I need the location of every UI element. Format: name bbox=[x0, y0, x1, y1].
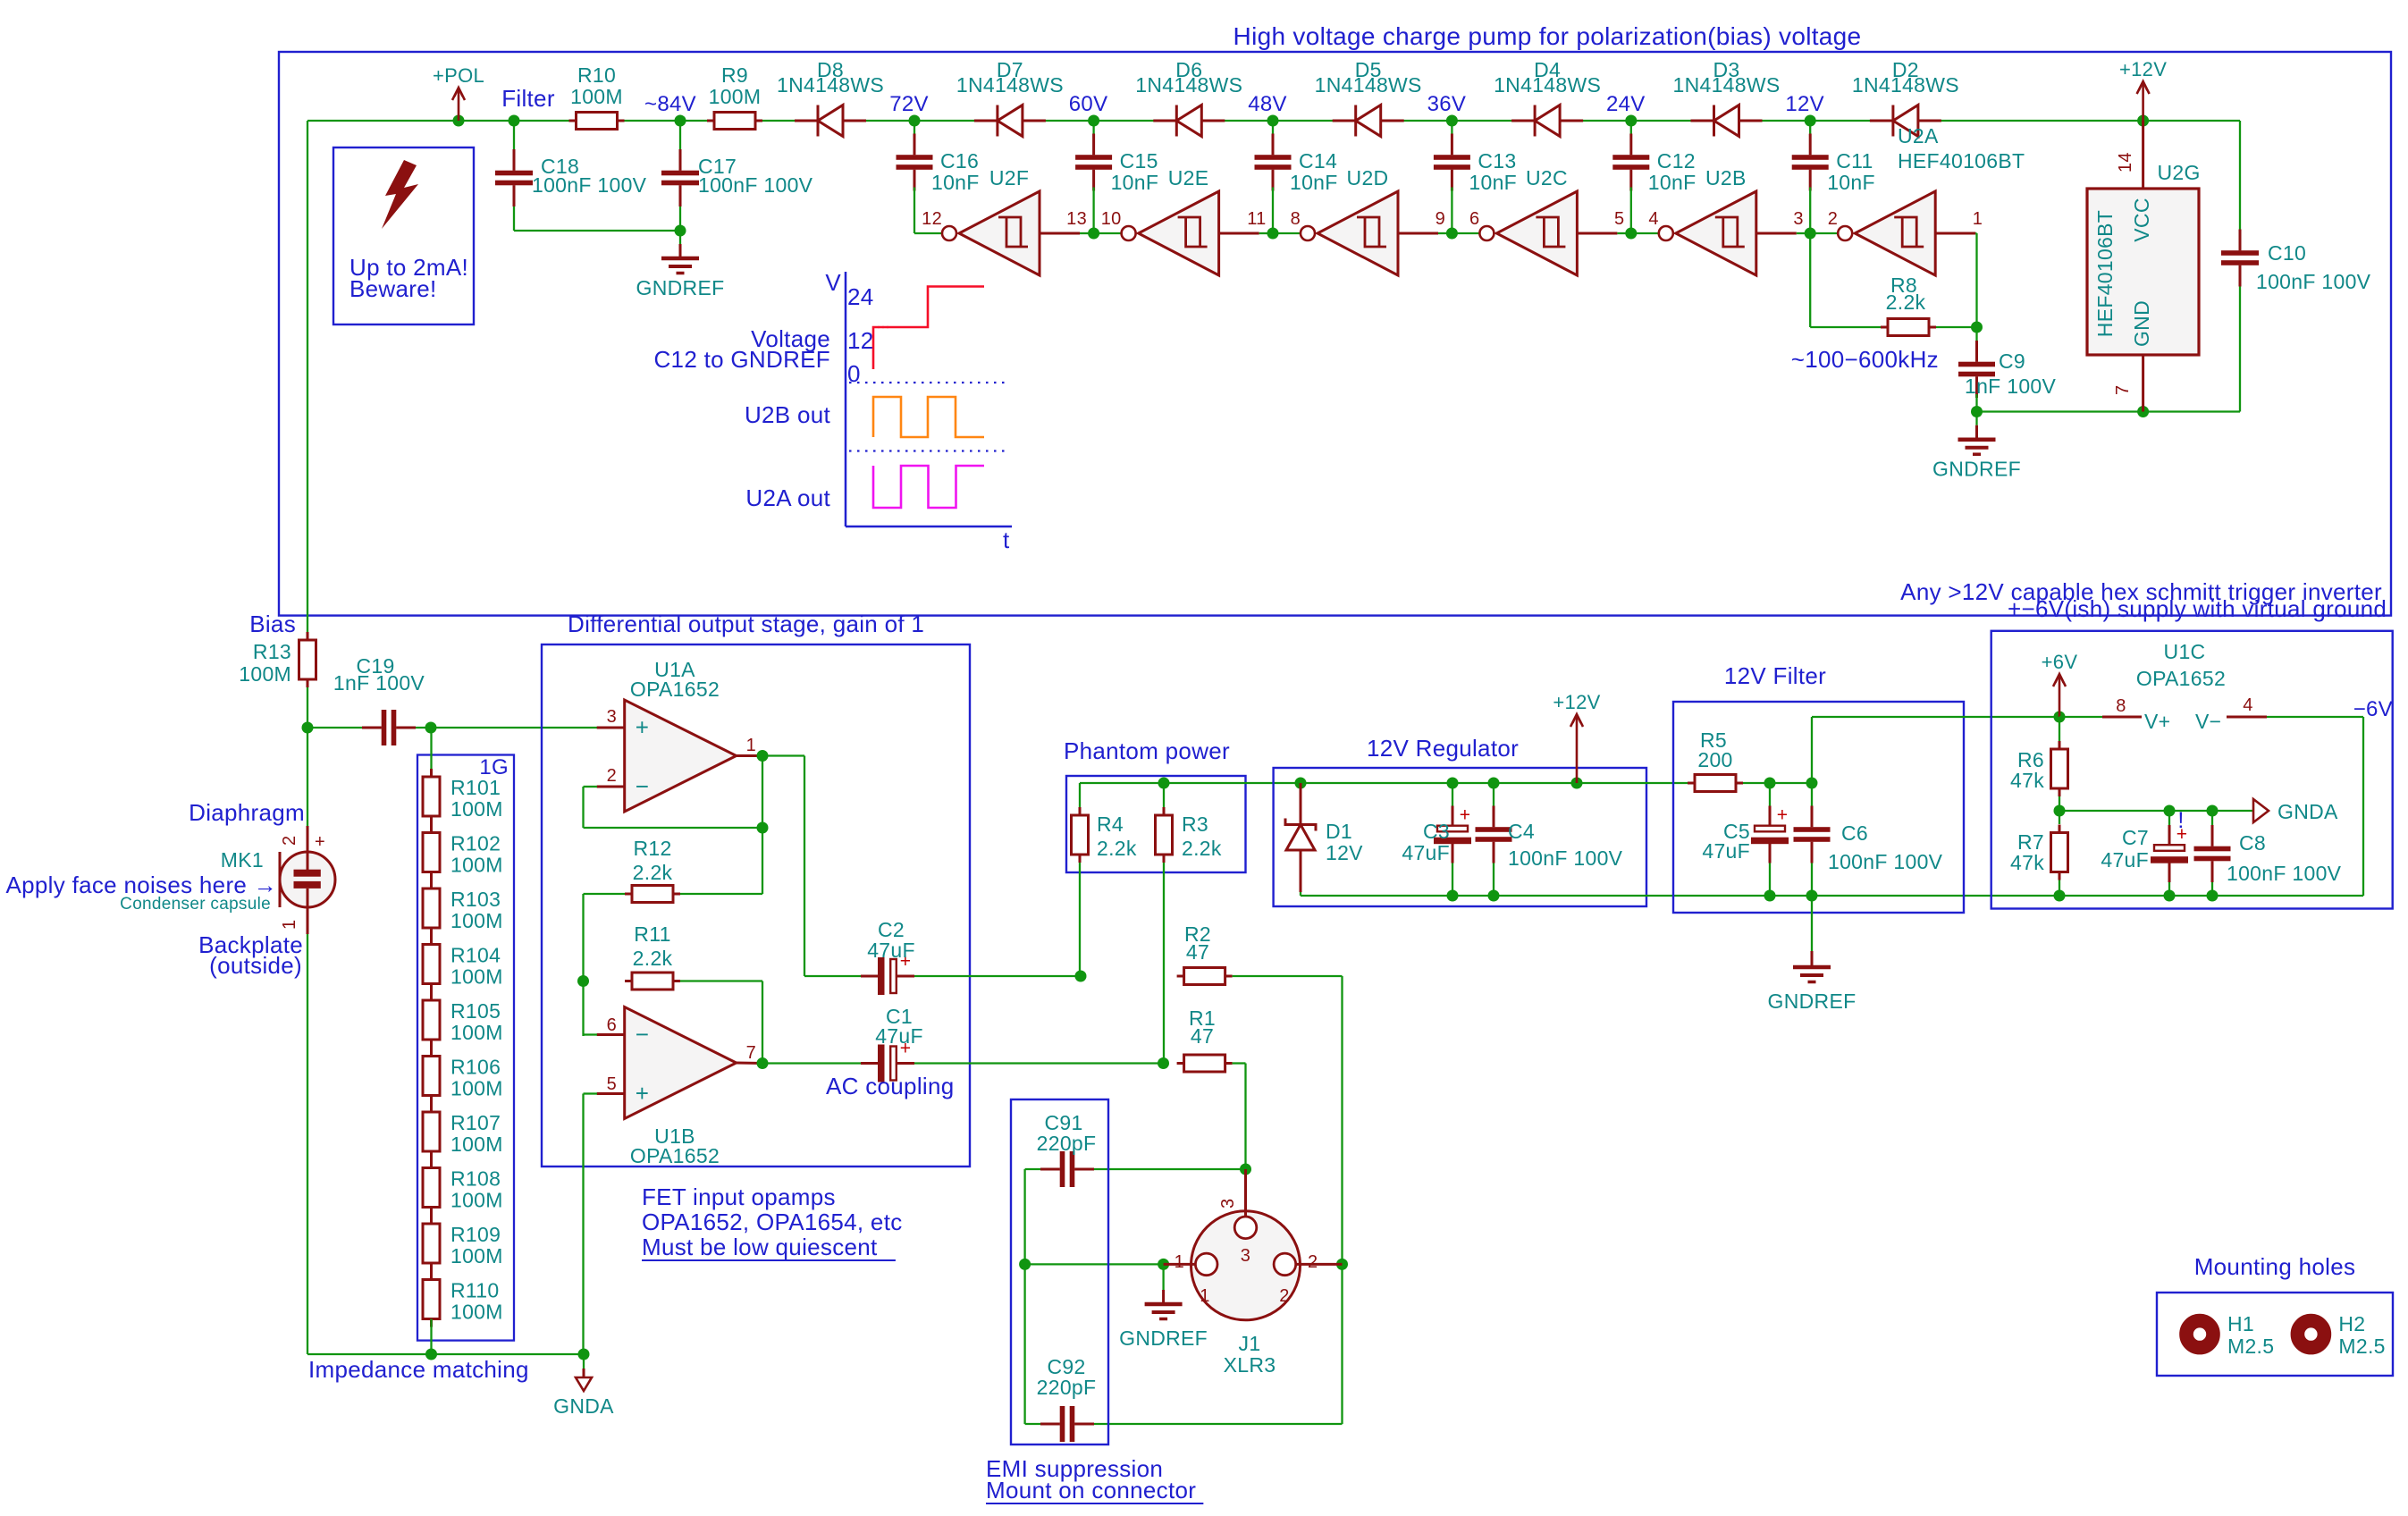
svg-text:+: + bbox=[315, 832, 325, 852]
svg-text:6: 6 bbox=[607, 1015, 617, 1035]
svg-text:47uF: 47uF bbox=[867, 939, 915, 962]
svg-text:36V: 36V bbox=[1427, 92, 1467, 116]
svg-text:100M: 100M bbox=[450, 854, 503, 877]
svg-text:4: 4 bbox=[1648, 209, 1658, 229]
svg-text:11: 11 bbox=[1247, 209, 1266, 229]
svg-text:H2: H2 bbox=[2338, 1312, 2365, 1335]
svg-text:C13: C13 bbox=[1478, 149, 1516, 173]
svg-text:2: 2 bbox=[280, 836, 299, 846]
svg-text:10nF: 10nF bbox=[1111, 171, 1159, 194]
svg-text:10nF: 10nF bbox=[1469, 171, 1517, 194]
svg-text:D1: D1 bbox=[1326, 820, 1352, 843]
svg-text:1nF 100V: 1nF 100V bbox=[333, 671, 425, 695]
svg-text:2: 2 bbox=[607, 766, 617, 786]
svg-text:U2C: U2C bbox=[1526, 166, 1568, 189]
svg-text:R104: R104 bbox=[450, 944, 501, 967]
svg-text:10nF: 10nF bbox=[931, 171, 980, 194]
svg-text:3: 3 bbox=[1793, 209, 1803, 229]
svg-text:J1: J1 bbox=[1239, 1332, 1261, 1355]
svg-text:100M: 100M bbox=[709, 85, 762, 108]
svg-text:+−6V(ish) supply with virtual: +−6V(ish) supply with virtual ground bbox=[2008, 595, 2387, 622]
svg-text:7: 7 bbox=[746, 1043, 756, 1063]
svg-text:100nF 100V: 100nF 100V bbox=[2256, 270, 2371, 293]
svg-text:1: 1 bbox=[1175, 1252, 1184, 1272]
svg-text:+12V: +12V bbox=[1553, 691, 1600, 713]
svg-text:U2A: U2A bbox=[1898, 124, 1939, 147]
svg-text:Mount on connector: Mount on connector bbox=[986, 1477, 1196, 1503]
svg-text:10nF: 10nF bbox=[1290, 171, 1338, 194]
svg-text:OPA1652, OPA1654, etc: OPA1652, OPA1654, etc bbox=[642, 1209, 903, 1235]
svg-text:2: 2 bbox=[1308, 1252, 1318, 1272]
svg-text:GNDREF: GNDREF bbox=[1119, 1326, 1208, 1350]
svg-text:+: + bbox=[636, 1080, 649, 1107]
svg-text:47: 47 bbox=[1191, 1024, 1214, 1048]
svg-text:R110: R110 bbox=[450, 1279, 499, 1302]
svg-text:3: 3 bbox=[1218, 1199, 1238, 1209]
svg-text:R11: R11 bbox=[634, 922, 670, 946]
svg-text:C7: C7 bbox=[2122, 826, 2149, 849]
svg-text:2.2k: 2.2k bbox=[1182, 837, 1222, 860]
svg-text:8: 8 bbox=[1291, 209, 1301, 229]
svg-text:U2G: U2G bbox=[2158, 161, 2201, 184]
svg-text:60V: 60V bbox=[1069, 92, 1108, 116]
svg-text:24: 24 bbox=[847, 283, 874, 310]
svg-text:R105: R105 bbox=[450, 999, 501, 1023]
svg-text:7: 7 bbox=[2113, 385, 2133, 395]
svg-text:R109: R109 bbox=[450, 1223, 501, 1246]
svg-text:−: − bbox=[636, 773, 649, 800]
svg-text:220pF: 220pF bbox=[1037, 1376, 1097, 1399]
svg-text:C8: C8 bbox=[2239, 831, 2266, 855]
svg-text:C15: C15 bbox=[1120, 149, 1158, 173]
svg-text:HEF40106BT: HEF40106BT bbox=[2093, 210, 2117, 337]
svg-text:~84V: ~84V bbox=[644, 92, 696, 116]
svg-text:1N4148WS: 1N4148WS bbox=[1315, 73, 1422, 97]
svg-text:R4: R4 bbox=[1097, 813, 1124, 836]
svg-text:100nF 100V: 100nF 100V bbox=[2227, 862, 2342, 885]
svg-text:47uF: 47uF bbox=[1702, 839, 1750, 863]
svg-text:100M: 100M bbox=[450, 1189, 503, 1212]
svg-text:R106: R106 bbox=[450, 1056, 501, 1079]
svg-text:U2B: U2B bbox=[1705, 166, 1747, 189]
svg-text:Filter: Filter bbox=[501, 85, 555, 112]
svg-text:−6V: −6V bbox=[2353, 697, 2393, 721]
svg-text:12V: 12V bbox=[1326, 841, 1363, 864]
svg-text:1N4148WS: 1N4148WS bbox=[956, 73, 1064, 97]
svg-text:+6V: +6V bbox=[2042, 651, 2078, 673]
svg-text:100M: 100M bbox=[450, 909, 503, 932]
svg-text:−: − bbox=[636, 1021, 649, 1048]
svg-text:2: 2 bbox=[1828, 209, 1838, 229]
svg-text:6: 6 bbox=[1469, 209, 1479, 229]
svg-text:10: 10 bbox=[1101, 209, 1122, 229]
svg-text:Differential output stage, gai: Differential output stage, gain of 1 bbox=[568, 611, 924, 637]
svg-text:U2F: U2F bbox=[989, 166, 1029, 189]
svg-text:200: 200 bbox=[1697, 748, 1732, 771]
svg-text:Diaphragm: Diaphragm bbox=[189, 799, 305, 826]
svg-text:48V: 48V bbox=[1248, 92, 1287, 116]
svg-text:+: + bbox=[636, 714, 649, 741]
svg-text:Bias: Bias bbox=[249, 611, 296, 637]
svg-text:47k: 47k bbox=[2010, 769, 2044, 792]
svg-text:2.2k: 2.2k bbox=[633, 861, 673, 884]
svg-text:R102: R102 bbox=[450, 832, 501, 855]
svg-text:100M: 100M bbox=[450, 965, 503, 989]
svg-text:U2E: U2E bbox=[1168, 166, 1209, 189]
svg-text:!: ! bbox=[2177, 808, 2184, 833]
svg-text:t: t bbox=[1003, 526, 1010, 553]
svg-text:GNDREF: GNDREF bbox=[636, 276, 725, 299]
svg-text:100M: 100M bbox=[570, 85, 623, 108]
svg-text:1: 1 bbox=[1200, 1286, 1209, 1306]
svg-text:9: 9 bbox=[1436, 209, 1445, 229]
svg-text:1N4148WS: 1N4148WS bbox=[777, 73, 884, 97]
svg-text:C10: C10 bbox=[2268, 241, 2306, 265]
svg-text:14: 14 bbox=[2116, 152, 2135, 173]
svg-text:1N4148WS: 1N4148WS bbox=[1135, 73, 1242, 97]
svg-text:AC coupling: AC coupling bbox=[826, 1073, 955, 1099]
svg-text:GNDA: GNDA bbox=[553, 1394, 614, 1418]
svg-text:C6: C6 bbox=[1841, 821, 1868, 845]
svg-text:OPA1652: OPA1652 bbox=[630, 678, 720, 701]
svg-text:GNDA: GNDA bbox=[2277, 800, 2338, 823]
svg-text:C9: C9 bbox=[1999, 350, 2025, 373]
svg-text:R107: R107 bbox=[450, 1111, 501, 1134]
svg-text:2.2k: 2.2k bbox=[1097, 837, 1137, 860]
svg-text:12V Regulator: 12V Regulator bbox=[1367, 735, 1519, 762]
svg-text:100nF 100V: 100nF 100V bbox=[532, 173, 647, 197]
svg-text:C12: C12 bbox=[1657, 149, 1696, 173]
svg-text:2: 2 bbox=[1279, 1286, 1289, 1306]
svg-text:Condenser capsule: Condenser capsule bbox=[120, 895, 271, 914]
svg-text:100M: 100M bbox=[450, 797, 503, 821]
svg-text:+POL: +POL bbox=[433, 64, 484, 87]
svg-text:HEF40106BT: HEF40106BT bbox=[1898, 149, 2025, 173]
svg-text:5: 5 bbox=[1614, 209, 1624, 229]
svg-text:100M: 100M bbox=[239, 662, 291, 686]
svg-text:OPA1652: OPA1652 bbox=[2136, 667, 2226, 690]
svg-text:1: 1 bbox=[1973, 209, 1983, 229]
svg-text:47uF: 47uF bbox=[1402, 841, 1450, 864]
svg-text:C16: C16 bbox=[940, 149, 979, 173]
svg-text:High voltage charge pump for p: High voltage charge pump for polarizatio… bbox=[1233, 22, 1862, 50]
svg-text:47: 47 bbox=[1186, 940, 1209, 964]
svg-text:24V: 24V bbox=[1606, 92, 1646, 116]
svg-text:C4: C4 bbox=[1508, 820, 1535, 843]
svg-text:100M: 100M bbox=[450, 1077, 503, 1100]
svg-text:U2B out: U2B out bbox=[745, 401, 831, 428]
svg-text:+: + bbox=[1777, 805, 1789, 826]
svg-text:100M: 100M bbox=[450, 1301, 503, 1324]
svg-text:GND: GND bbox=[2130, 300, 2153, 347]
svg-text:100M: 100M bbox=[450, 1244, 503, 1268]
svg-text:10nF: 10nF bbox=[1648, 171, 1697, 194]
svg-text:Mounting holes: Mounting holes bbox=[2194, 1253, 2356, 1280]
svg-text:220pF: 220pF bbox=[1037, 1132, 1097, 1155]
svg-text:1: 1 bbox=[746, 736, 756, 755]
svg-text:Impedance matching: Impedance matching bbox=[308, 1356, 529, 1383]
svg-text:47uF: 47uF bbox=[875, 1024, 923, 1048]
svg-text:12: 12 bbox=[847, 327, 874, 354]
svg-text:C11: C11 bbox=[1836, 149, 1873, 173]
svg-text:3: 3 bbox=[607, 707, 617, 727]
svg-text:100nF 100V: 100nF 100V bbox=[698, 173, 813, 197]
svg-text:1: 1 bbox=[280, 920, 299, 930]
svg-text:47k: 47k bbox=[2010, 851, 2044, 874]
svg-text:Beware!: Beware! bbox=[349, 275, 436, 302]
svg-text:(outside): (outside) bbox=[209, 952, 302, 979]
svg-text:12: 12 bbox=[922, 209, 942, 229]
svg-text:C3: C3 bbox=[1423, 820, 1450, 843]
svg-text:U1C: U1C bbox=[2164, 640, 2206, 663]
svg-text:H1: H1 bbox=[2227, 1312, 2254, 1335]
svg-text:1N4148WS: 1N4148WS bbox=[1852, 73, 1959, 97]
svg-text:4: 4 bbox=[2243, 695, 2252, 715]
svg-text:M2.5: M2.5 bbox=[2338, 1335, 2385, 1358]
svg-text:1N4148WS: 1N4148WS bbox=[1672, 73, 1780, 97]
svg-text:~100−600kHz: ~100−600kHz bbox=[1791, 346, 1939, 373]
svg-text:12V: 12V bbox=[1785, 92, 1824, 116]
svg-text:V−: V− bbox=[2195, 710, 2221, 733]
svg-text:100nF 100V: 100nF 100V bbox=[1508, 846, 1623, 870]
svg-text:72V: 72V bbox=[889, 92, 929, 116]
svg-text:GNDREF: GNDREF bbox=[1932, 458, 2021, 481]
svg-text:100M: 100M bbox=[450, 1133, 503, 1156]
svg-text:C12 to GNDREF: C12 to GNDREF bbox=[653, 346, 830, 373]
svg-text:R101: R101 bbox=[450, 776, 501, 799]
svg-text:V: V bbox=[825, 269, 841, 296]
svg-text:R103: R103 bbox=[450, 888, 501, 911]
svg-text:R9: R9 bbox=[721, 63, 748, 87]
svg-text:R12: R12 bbox=[633, 837, 671, 860]
svg-text:OPA1652: OPA1652 bbox=[630, 1144, 720, 1167]
svg-text:1N4148WS: 1N4148WS bbox=[1494, 73, 1601, 97]
svg-text:2.2k: 2.2k bbox=[1886, 291, 1926, 314]
svg-text:R108: R108 bbox=[450, 1167, 501, 1191]
svg-text:V+: V+ bbox=[2144, 710, 2170, 733]
svg-text:100M: 100M bbox=[450, 1021, 503, 1044]
svg-text:13: 13 bbox=[1066, 209, 1087, 229]
svg-text:12V Filter: 12V Filter bbox=[1724, 662, 1826, 689]
svg-text:FET input opamps: FET input opamps bbox=[642, 1183, 836, 1210]
svg-text:GNDREF: GNDREF bbox=[1768, 990, 1857, 1013]
svg-text:U2A out: U2A out bbox=[745, 484, 830, 511]
svg-text:Phantom power: Phantom power bbox=[1064, 737, 1230, 764]
svg-text:100nF 100V: 100nF 100V bbox=[1828, 850, 1943, 873]
svg-text:47uF: 47uF bbox=[2101, 848, 2149, 872]
svg-text:8: 8 bbox=[2116, 696, 2126, 716]
svg-text:R13: R13 bbox=[253, 640, 291, 663]
svg-text:+12V: +12V bbox=[2119, 58, 2167, 80]
svg-text:U2D: U2D bbox=[1347, 166, 1389, 189]
svg-text:C14: C14 bbox=[1299, 149, 1337, 173]
svg-text:5: 5 bbox=[607, 1074, 617, 1094]
svg-text:10nF: 10nF bbox=[1827, 171, 1875, 194]
svg-text:+: + bbox=[1460, 805, 1471, 826]
svg-text:2.2k: 2.2k bbox=[633, 947, 673, 970]
svg-text:MK1: MK1 bbox=[221, 848, 264, 872]
svg-text:XLR3: XLR3 bbox=[1224, 1353, 1276, 1377]
svg-text:1nF 100V: 1nF 100V bbox=[1965, 375, 2056, 398]
svg-text:R3: R3 bbox=[1182, 813, 1208, 836]
svg-text:Must be low quiescent: Must be low quiescent bbox=[642, 1234, 878, 1260]
svg-text:VCC: VCC bbox=[2130, 198, 2153, 241]
svg-text:R10: R10 bbox=[577, 63, 616, 87]
svg-text:M2.5: M2.5 bbox=[2227, 1335, 2274, 1358]
svg-text:3: 3 bbox=[1241, 1246, 1250, 1266]
